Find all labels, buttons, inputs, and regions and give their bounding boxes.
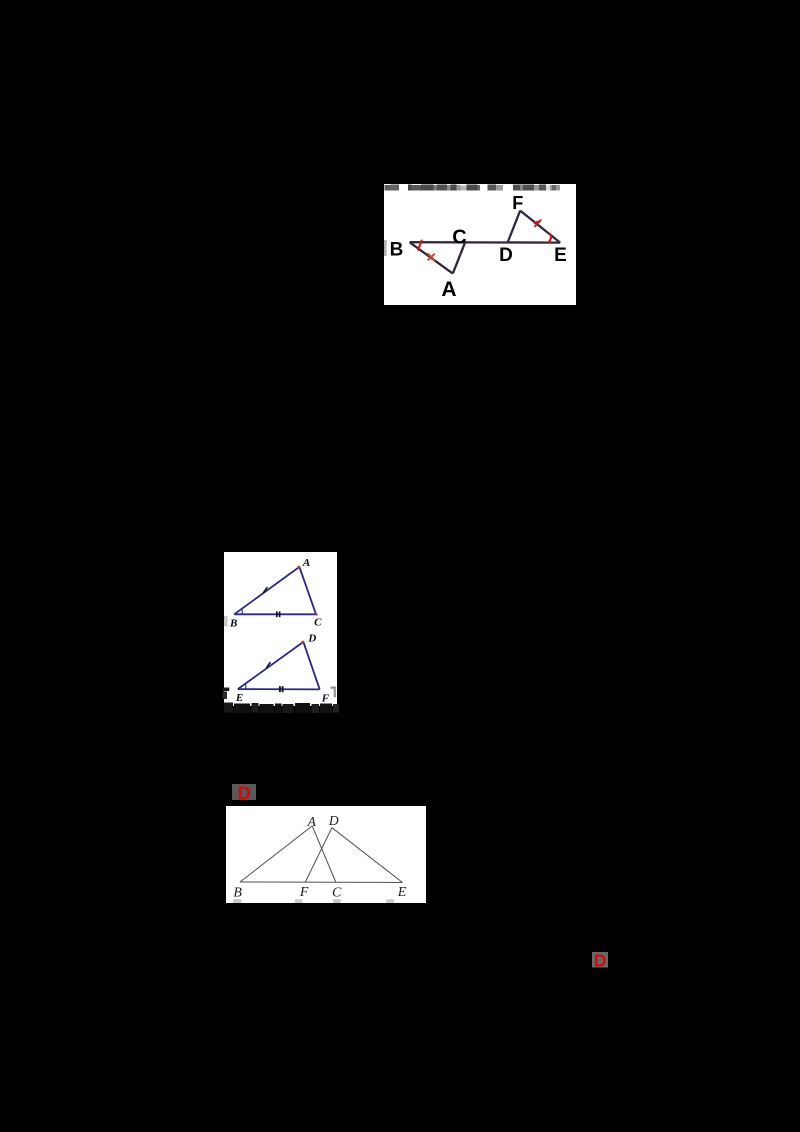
red tick on BA near B — [418, 241, 421, 250]
svg-text:C: C — [314, 617, 322, 629]
red dot at A — [297, 566, 300, 569]
svg-text:B: B — [233, 886, 242, 901]
cropped text smudge row under figure 2 — [221, 701, 341, 715]
edge D-F — [305, 828, 332, 883]
svg-text:D: D — [328, 813, 339, 828]
edge D-E — [332, 828, 403, 883]
svg-text:E: E — [397, 885, 407, 900]
svg-text:C: C — [452, 226, 466, 248]
svg-text:F: F — [299, 885, 309, 900]
red dot at D — [302, 641, 305, 644]
red dot at C — [315, 613, 318, 616]
figure 1 white panel — [384, 184, 576, 305]
red tick on FE — [535, 220, 541, 226]
svg-text:B: B — [390, 240, 404, 261]
triangle edge F-D — [303, 642, 319, 690]
svg-text:C: C — [332, 885, 342, 900]
triangle edge A-C — [453, 242, 466, 274]
triangle edge F-E — [520, 211, 560, 243]
figure 2 white panel — [224, 552, 337, 706]
svg-text:D: D — [238, 784, 251, 800]
light gray cropped text bits at bottom edge — [233, 899, 241, 903]
angle arc at B — [241, 609, 244, 614]
figure 3 white panel — [226, 806, 426, 903]
angle arc at E — [244, 684, 247, 689]
triangle edge E-F — [238, 688, 320, 690]
cropped text smudge row (top of panel) — [385, 185, 561, 191]
svg-text:D: D — [499, 245, 513, 266]
double tick on BC — [277, 611, 280, 617]
triangle edge D-E — [238, 642, 304, 689]
tick on AB — [263, 587, 267, 593]
gray edge mark left of B — [384, 240, 387, 256]
wire: long line B through C and D to E — [410, 241, 561, 244]
svg-text:D: D — [594, 952, 607, 968]
icon: gray box with red D — [232, 784, 256, 800]
svg-text:A: A — [441, 278, 456, 301]
gray edge mark left of B — [224, 616, 228, 627]
svg-text:B: B — [229, 617, 237, 629]
tick on ED — [266, 662, 270, 668]
svg-text:D: D — [307, 633, 316, 645]
edge A-C — [312, 826, 336, 882]
triangle edge D-F — [508, 211, 520, 242]
triangle edge A-B — [234, 567, 299, 614]
dark glyph fragment bottom-left edge — [223, 688, 230, 692]
svg-text:F: F — [512, 193, 523, 213]
icon: gray box with red D — [592, 952, 608, 968]
triangle edge B-C — [234, 613, 316, 615]
triangle edge B-A — [410, 242, 453, 273]
svg-text:E: E — [554, 245, 567, 266]
baseline B-E — [240, 881, 403, 884]
red X tick on BA — [428, 254, 434, 260]
red angle arc at E — [549, 234, 551, 242]
triangle edge C-A — [299, 567, 316, 614]
gray bracket mark right of F — [331, 687, 337, 689]
svg-text:A: A — [302, 557, 310, 569]
double tick on EF — [280, 686, 283, 692]
edge A-B — [240, 826, 312, 882]
svg-text:A: A — [307, 814, 317, 829]
